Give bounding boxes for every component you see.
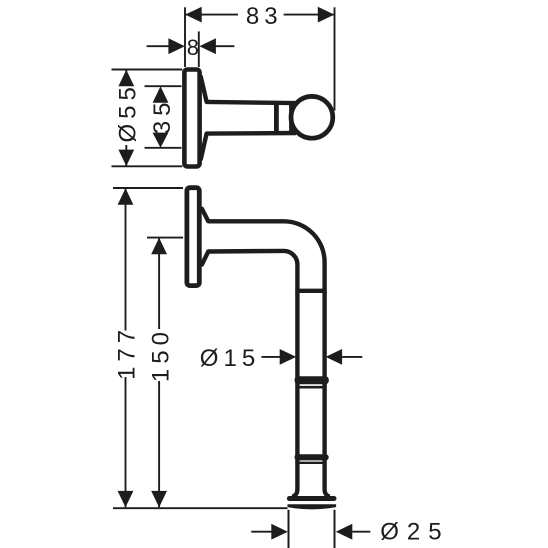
dimension D55: arrow bottom	[118, 150, 134, 167]
dimension 150: extension line top	[147, 237, 183, 239]
dimension 177: arrow bottom	[118, 491, 134, 508]
dimension 83: line left segment	[185, 14, 238, 16]
svg-text:Ø55: Ø55	[114, 82, 141, 142]
dimension D15: line left	[262, 356, 282, 358]
stem top line	[206, 102, 296, 103]
dimension D25: arrow right (outside pointing left)	[336, 524, 353, 540]
dimension D55: extension line top	[112, 69, 183, 71]
pipe collar 2	[295, 376, 329, 384]
dimension 177: line segments	[125, 188, 127, 330]
base flange top bar	[287, 496, 337, 501]
dimension 35: extension line bottom	[145, 147, 182, 149]
dimension D55: line segments	[125, 70, 127, 86]
svg-text:83: 83	[246, 3, 283, 30]
floor extension line	[113, 507, 288, 509]
svg-text:150: 150	[147, 327, 174, 382]
dimension 150: arrow top	[151, 238, 167, 255]
dimension 8: arrow right (outside pointing left)	[199, 38, 216, 54]
svg-text:Ø25: Ø25	[380, 519, 449, 546]
svg-text:177: 177	[114, 325, 141, 380]
ball knob	[291, 96, 333, 138]
dimension 8: line left	[147, 45, 170, 47]
svg-text:8: 8	[187, 35, 199, 60]
pipe joint line 2b	[296, 386, 327, 389]
cone taper bottom edge (bottom view)	[202, 252, 208, 265]
dimension D25: arrow left (outside pointing right)	[271, 524, 288, 540]
dimension 8: extension line right	[198, 31, 200, 67]
dimension 35: extension line top	[145, 85, 182, 87]
base cylinder left edge	[288, 510, 290, 548]
base flange bottom bar (with sag)	[288, 504, 337, 509]
stem bottom line	[206, 131, 296, 136]
pipe outer edge (top line, bend, right side)	[208, 221, 329, 496]
dimension D15: arrow left (outside pointing right)	[280, 349, 297, 365]
dimension D25: line right	[352, 531, 370, 533]
dimension 150: arrow bottom	[151, 491, 167, 508]
pipe joint line 3b	[296, 462, 327, 464]
dimension D15: arrow right (outside pointing left)	[326, 349, 343, 365]
dimension D55: extension line bottom	[112, 165, 183, 167]
stem joint ring 1	[274, 103, 279, 134]
wall plate (top view, side-on)	[184, 70, 199, 167]
svg-text:Ø15: Ø15	[200, 345, 260, 372]
dimension D25: line left	[251, 531, 273, 533]
stem joint ring 2 (at ball)	[289, 103, 293, 134]
pipe collar 3	[295, 454, 329, 460]
dimension 177: arrow top	[118, 188, 134, 205]
dimension D15: line right	[342, 356, 362, 358]
dimension 83: arrow left	[185, 7, 202, 23]
dimension 83: extension line right	[334, 7, 336, 110]
dimension D55: arrow top	[118, 70, 134, 87]
dimension 8: arrow left (outside pointing right)	[168, 38, 185, 54]
dimension 150: line segments	[158, 238, 160, 329]
dimension 35: arrow top	[153, 86, 169, 103]
pipe inner edge (bottom line, bend, left side)	[208, 251, 297, 497]
svg-text:35: 35	[149, 97, 176, 134]
cone taper bottom edge	[201, 134, 207, 160]
cone taper top edge (bottom view)	[202, 209, 208, 221]
wall plate (bottom view)	[187, 188, 199, 286]
dimension 83: arrow right	[318, 7, 335, 23]
dimension 8: line right	[215, 45, 235, 47]
base cylinder right edge	[334, 510, 336, 548]
cone taper top edge	[201, 77, 207, 102]
dimension 177: extension line top	[113, 187, 183, 189]
dimension 83: extension line left	[184, 7, 186, 67]
dimension 83: line right segment	[284, 14, 335, 16]
dimension 35: arrow bottom	[153, 133, 169, 148]
pipe joint line 1	[295, 289, 326, 293]
